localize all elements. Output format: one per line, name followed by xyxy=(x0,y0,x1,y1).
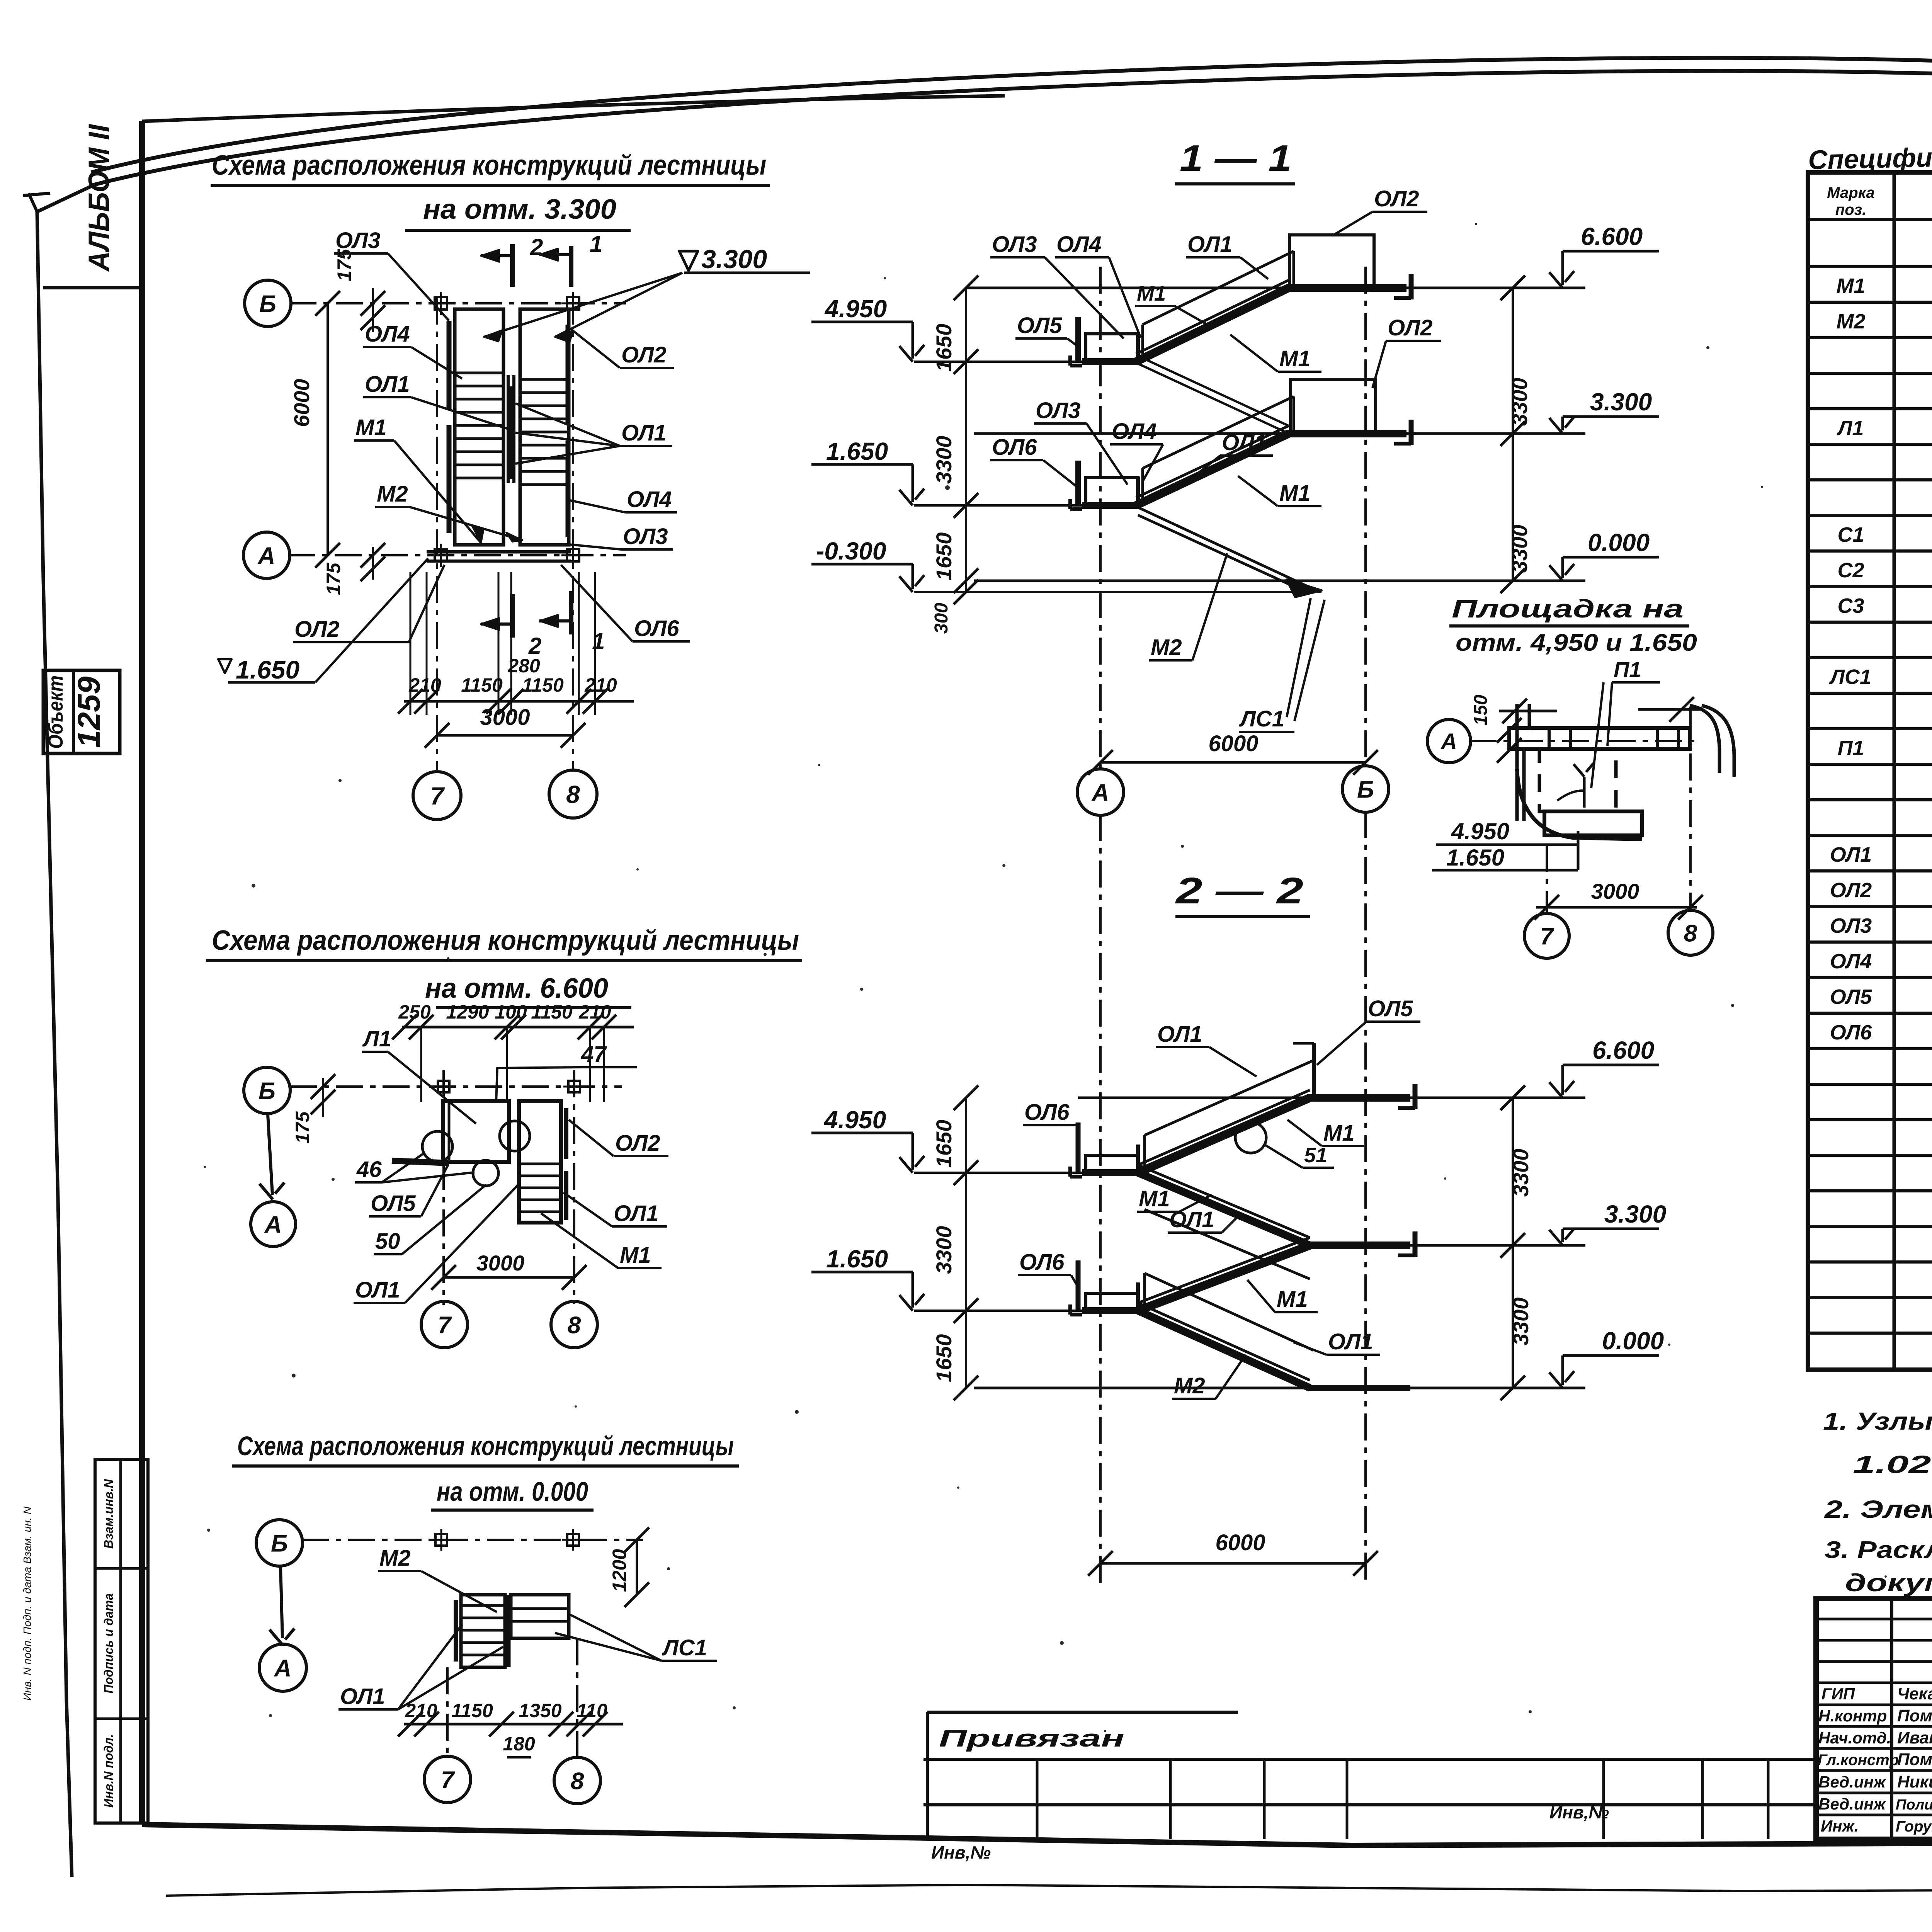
railing post ОЛ6 upper section 2-2 xyxy=(1076,1122,1081,1173)
upper flight М1 section 1-1 (4.950-6.600) xyxy=(1136,288,1289,362)
svg-text:ЛС1: ЛС1 xyxy=(662,1635,707,1660)
svg-text:ОЛ5: ОЛ5 xyxy=(1368,996,1413,1021)
svg-text:ОЛ3: ОЛ3 xyxy=(623,524,668,549)
svg-text:С3: С3 xyxy=(1837,594,1864,617)
axis circle Б scheme-2 xyxy=(244,1067,290,1114)
detail plan bottom slab xyxy=(1544,811,1642,835)
svg-text:А: А xyxy=(1440,729,1457,754)
left dim chain section 2-2 xyxy=(965,1098,967,1388)
section mark 2 top xyxy=(510,244,515,287)
scheme-1 right flight rectangle xyxy=(520,309,569,545)
left bottom rotated cells box xyxy=(95,1459,148,1823)
svg-text:ОЛ6: ОЛ6 xyxy=(634,616,679,641)
scheme-3 left flight steps xyxy=(461,1604,505,1607)
detail plan right curved corner xyxy=(1690,706,1719,773)
landing slab 3.300 section 2-2 xyxy=(1308,1242,1410,1249)
axis circle А detail xyxy=(1427,719,1471,763)
svg-text:П1: П1 xyxy=(1838,736,1864,760)
svg-text:3. Раскладку накладных проступ: 3. Раскладку накладных проступей см. 1.0… xyxy=(1825,1537,1932,1563)
svg-text:Нач.отд.: Нач.отд. xyxy=(1818,1729,1891,1747)
scheme-2 flight steps xyxy=(519,1163,561,1165)
svg-text:Н.контр: Н.контр xyxy=(1818,1707,1887,1725)
level line -0.300 section 1-1 xyxy=(914,591,1321,593)
scan specks xyxy=(945,485,950,490)
landing level 4.950 line section 2-2 xyxy=(914,1172,1085,1174)
svg-text:на отм. 3.300: на отм. 3.300 xyxy=(423,194,616,225)
svg-text:Инв.N подл.: Инв.N подл. xyxy=(102,1734,116,1808)
landing railing box ОЛ2 mid section 1-1 xyxy=(1291,379,1376,434)
axis А vertical section 1-1 xyxy=(1099,267,1102,768)
section 1-1 heading underline xyxy=(1175,182,1295,185)
scheme-1 bottom wall xyxy=(427,550,571,554)
svg-text:М2: М2 xyxy=(1174,1373,1205,1398)
svg-text:Взам.инв.N: Взам.инв.N xyxy=(102,1479,116,1549)
left inner thick border xyxy=(139,121,145,1825)
svg-text:3300: 3300 xyxy=(1509,1298,1533,1346)
axis Б to А arrow scheme-2 xyxy=(268,1114,272,1195)
flight М1 up section 2-2 (1.650-3.300) xyxy=(1138,1245,1310,1311)
scheme-1 title underline 1 xyxy=(211,184,770,187)
upper flight railing section 1-1 xyxy=(1143,251,1294,325)
svg-text:ОЛ4: ОЛ4 xyxy=(365,321,410,347)
svg-text:ЛС1: ЛС1 xyxy=(1239,706,1284,731)
svg-text:М1: М1 xyxy=(1323,1121,1355,1146)
svg-text:поз.: поз. xyxy=(1835,201,1866,218)
floor line 0.000 section 2-2 xyxy=(974,1387,1585,1389)
svg-text:А: А xyxy=(274,1655,292,1682)
axis line А detail xyxy=(1469,740,1700,742)
detail title underline xyxy=(1449,624,1689,628)
svg-text:Инв,№: Инв,№ xyxy=(1549,1802,1609,1822)
svg-text:250: 250 xyxy=(398,1001,431,1023)
svg-text:3.300: 3.300 xyxy=(1604,1200,1666,1228)
svg-text:Вед.инж: Вед.инж xyxy=(1818,1773,1886,1791)
axis line Б scheme-1 xyxy=(289,302,626,304)
axis line Б scheme-2 xyxy=(290,1085,622,1088)
svg-text:ОЛ3: ОЛ3 xyxy=(335,228,380,253)
svg-text:М2: М2 xyxy=(377,481,408,507)
svg-text:1.650: 1.650 xyxy=(1446,845,1504,871)
svg-text:1150: 1150 xyxy=(451,1700,493,1721)
svg-text:175: 175 xyxy=(323,562,344,595)
svg-text:Подпись и дата: Подпись и дата xyxy=(102,1593,116,1693)
bottom frame border xyxy=(142,1825,1932,1845)
scheme-2 dim 3000 xyxy=(444,1276,574,1279)
svg-text:Объект: Объект xyxy=(44,675,67,749)
scheme-2 column marks xyxy=(438,1081,449,1092)
detail plan top slab П1 xyxy=(1509,728,1690,749)
svg-text:Схема расположения конструкций: Схема расположения конструкций лестницы xyxy=(212,150,766,181)
scheme-1 left flight steps xyxy=(455,372,503,374)
axis circle 7 scheme-2 xyxy=(421,1301,468,1348)
axis circle Б section 1-1 xyxy=(1342,766,1389,812)
svg-text:ОЛ4: ОЛ4 xyxy=(627,487,672,512)
svg-text:ОЛ1: ОЛ1 xyxy=(1169,1207,1214,1232)
svg-text:3300: 3300 xyxy=(932,1226,956,1274)
detail level connector xyxy=(1577,831,1580,870)
svg-text:М1: М1 xyxy=(355,415,387,440)
svg-text:отм. 4,950 и 1.650: отм. 4,950 и 1.650 xyxy=(1456,629,1697,656)
hook 3.300 section 2-2 xyxy=(1413,1231,1418,1257)
flight М2 section 2-2 (1.650-0.000) xyxy=(1138,1311,1310,1388)
scheme-3 right flight rectangle xyxy=(511,1595,569,1638)
landing level 4.950 line section 1-1 xyxy=(914,361,1085,363)
steps ЛС1 section 1-1 xyxy=(1287,580,1321,597)
svg-text:ГИП: ГИП xyxy=(1821,1685,1855,1703)
svg-text:6000: 6000 xyxy=(1208,731,1258,756)
svg-text:8: 8 xyxy=(568,1312,581,1338)
svg-text:Инж.: Инж. xyxy=(1821,1817,1859,1835)
svg-text:3.300: 3.300 xyxy=(1590,388,1652,416)
svg-text:6000: 6000 xyxy=(289,379,314,427)
svg-text:ОЛ1: ОЛ1 xyxy=(1830,843,1872,866)
landing level 1.650 line section 2-2 xyxy=(914,1310,1085,1312)
hook 6.600 section 2-2 xyxy=(1413,1084,1418,1109)
svg-text:1150: 1150 xyxy=(461,674,503,696)
svg-text:Схема расположения конструкций: Схема расположения конструкций лестницы xyxy=(212,925,799,956)
section mark 1 bottom xyxy=(569,591,573,634)
svg-text:ОЛ1: ОЛ1 xyxy=(621,420,666,446)
landing railing box ОЛ2 top section 1-1 xyxy=(1289,235,1374,288)
svg-text:Инв. N подп. Подп. и дата: Инв. N подп. Подп. и дата Взам. ин. N xyxy=(21,1506,33,1701)
svg-text:ОЛ5: ОЛ5 xyxy=(1017,313,1062,338)
svg-text:ОЛ6: ОЛ6 xyxy=(992,435,1037,460)
svg-text:Б: Б xyxy=(271,1530,288,1557)
svg-text:180: 180 xyxy=(503,1733,535,1755)
svg-text:Поликратова: Поликратова xyxy=(1896,1797,1932,1813)
svg-text:1.650: 1.650 xyxy=(826,1245,888,1273)
axis circle Б scheme-3 xyxy=(256,1520,303,1566)
svg-text:М1: М1 xyxy=(1279,346,1311,371)
svg-text:1650: 1650 xyxy=(932,324,956,372)
svg-text:С1: С1 xyxy=(1837,523,1864,546)
svg-text:Инв,№: Инв,№ xyxy=(931,1842,991,1862)
elevation mark 1.650 plan xyxy=(218,659,231,673)
svg-text:М1: М1 xyxy=(1836,274,1865,298)
left border top hook xyxy=(37,186,91,212)
scheme-3 left flight rectangle xyxy=(461,1595,505,1667)
svg-text:210: 210 xyxy=(584,674,617,696)
left outer border xyxy=(37,212,72,1877)
svg-text:46: 46 xyxy=(356,1157,382,1182)
svg-text:ОЛ4: ОЛ4 xyxy=(1056,232,1101,257)
svg-text:Схема расположения конструкций: Схема расположения конструкций лестницы xyxy=(237,1431,734,1461)
scheme-2 railing ОЛ2 dashes xyxy=(564,1108,568,1159)
section mark 1 top xyxy=(569,246,573,287)
svg-text:1150: 1150 xyxy=(522,674,564,696)
svg-text:Л1: Л1 xyxy=(1836,417,1864,440)
scheme-2 right flight rectangle xyxy=(519,1101,561,1223)
scheme-3 title underline 1 xyxy=(232,1464,739,1468)
upper flight М1 section 2-2 (4.950-6.600) xyxy=(1138,1098,1310,1173)
svg-text:3000: 3000 xyxy=(476,1251,525,1275)
railing post ОЛ5 section 1-1 xyxy=(1075,317,1081,362)
floor line 0.000 section 1-1 xyxy=(974,580,1585,582)
svg-text:Помазов: Помазов xyxy=(1897,1706,1932,1725)
svg-text:3300: 3300 xyxy=(1507,378,1532,426)
svg-text:ОЛ3: ОЛ3 xyxy=(1830,914,1872,937)
svg-text:1650: 1650 xyxy=(932,532,956,581)
floor line 6.600 section 1-1 xyxy=(966,287,1585,289)
svg-text:50: 50 xyxy=(375,1229,400,1254)
right dim chain section 1-1 xyxy=(1512,288,1514,581)
detail plan bottom-left curved wall xyxy=(1517,769,1642,839)
svg-text:3.300: 3.300 xyxy=(701,245,767,274)
landing level 1.650 line section 1-1 xyxy=(914,504,1085,507)
section 2-2 heading underline xyxy=(1175,915,1310,918)
svg-text:А: А xyxy=(1091,779,1109,806)
svg-text:ОЛ5: ОЛ5 xyxy=(371,1191,416,1216)
svg-text:ОЛ6: ОЛ6 xyxy=(1019,1250,1065,1275)
floor line 3.300 section 2-2 xyxy=(1306,1244,1585,1247)
svg-text:документ 20ПЗ схемы 3 и 6.: документ 20ПЗ схемы 3 и 6. xyxy=(1845,1569,1932,1597)
svg-text:Помазов: Помазов xyxy=(1897,1750,1932,1769)
М2 railing section 2-2 xyxy=(1145,1273,1314,1350)
svg-text:7: 7 xyxy=(441,1767,455,1793)
railing post ОЛ6 lower section 2-2 xyxy=(1076,1260,1081,1311)
svg-text:П1: П1 xyxy=(1614,657,1641,682)
axis 8 vertical detail xyxy=(1689,707,1692,912)
axis 8 vertical scheme-3 xyxy=(576,1638,578,1758)
bottom thin fold line xyxy=(166,1885,1932,1896)
title block outer box xyxy=(1816,1599,1932,1839)
svg-text:1650: 1650 xyxy=(932,1334,956,1383)
title block signature row lines xyxy=(1816,1618,1932,1621)
svg-text:1.650: 1.650 xyxy=(236,655,299,684)
svg-text:Вед.инж: Вед.инж xyxy=(1818,1795,1886,1813)
mid flight railing section 1-1 xyxy=(1143,396,1294,468)
svg-text:300: 300 xyxy=(931,603,952,634)
inner frame top line xyxy=(142,96,1005,121)
svg-text:ОЛ4: ОЛ4 xyxy=(1112,419,1156,444)
scheme-1 central railing lines xyxy=(507,375,510,483)
svg-text:51: 51 xyxy=(1304,1144,1327,1167)
svg-text:1 — 1: 1 — 1 xyxy=(1180,138,1292,179)
floor line 3.300 section 1-1 xyxy=(974,432,1585,435)
svg-text:М1: М1 xyxy=(1137,282,1166,305)
svg-text:М1: М1 xyxy=(620,1243,651,1268)
axis circle 8 scheme-3 xyxy=(554,1757,600,1804)
svg-text:Горунженко: Горунженко xyxy=(1896,1818,1932,1835)
svg-text:ОЛ2: ОЛ2 xyxy=(615,1131,660,1156)
svg-text:4.950: 4.950 xyxy=(824,295,887,323)
scheme-1 right railing ОЛ2 dashes xyxy=(566,325,571,425)
svg-text:М1: М1 xyxy=(1279,481,1311,506)
АЛЬБОМ II panel divider xyxy=(43,286,142,289)
svg-text:-0.300: -0.300 xyxy=(816,537,886,565)
svg-text:Чекалов: Чекалов xyxy=(1897,1684,1932,1703)
flight М2 section 1-1 (1.650-0.000) xyxy=(1138,507,1313,589)
svg-text:Б: Б xyxy=(1357,776,1374,803)
svg-text:2 — 2: 2 — 2 xyxy=(1175,870,1303,912)
svg-text:7: 7 xyxy=(438,1312,452,1338)
scheme-2 title underline 2 xyxy=(436,1006,631,1009)
axis circle 8 scheme-2 xyxy=(551,1301,597,1348)
scheme-2 thick flight edge below landing xyxy=(392,1161,449,1163)
landing slab 3.300 section 1-1 xyxy=(1286,430,1406,437)
svg-text:7: 7 xyxy=(1540,923,1554,950)
svg-text:АЛЬБОМ II: АЛЬБОМ II xyxy=(83,124,116,272)
svg-text:Б: Б xyxy=(259,1078,276,1104)
svg-text:3300: 3300 xyxy=(1507,525,1532,573)
svg-text:М2: М2 xyxy=(1151,635,1182,660)
axis А vertical section 2-2 xyxy=(1099,814,1102,1584)
axis 8 vertical scheme-2 xyxy=(573,1070,575,1304)
scheme-2 landing plan rectangle xyxy=(443,1101,509,1162)
section 1-1 dim 6000 xyxy=(1100,761,1366,764)
scheme-3 right flight lines xyxy=(511,1607,569,1610)
scheme-2 handrail circles xyxy=(422,1131,452,1162)
svg-text:ОЛ6: ОЛ6 xyxy=(1830,1021,1872,1044)
scheme-1 dim 3000 xyxy=(437,734,573,737)
Объект 1259 box xyxy=(43,670,120,753)
svg-text:1: 1 xyxy=(590,231,602,257)
detail plan left wall xyxy=(1515,704,1519,821)
hook 3.300 section 1-1 xyxy=(1409,420,1414,445)
svg-text:1.020-1/83 вып. 6-1: 1.020-1/83 вып. 6-1 xyxy=(1853,1451,1932,1478)
axis 7 vertical scheme-2 xyxy=(442,1070,445,1305)
svg-text:Привязан: Привязан xyxy=(939,1725,1124,1752)
axis circle Б scheme-1 xyxy=(245,280,291,327)
scheme-1 left flight rectangle xyxy=(455,309,503,545)
left dim chain section 1-1 xyxy=(965,288,967,592)
landing 1.650 section 2-2 xyxy=(1086,1293,1138,1311)
hook 6.600 section 1-1 xyxy=(1409,274,1414,299)
svg-text:Б: Б xyxy=(259,291,276,317)
landing 4.950 section 2-2 xyxy=(1086,1155,1138,1173)
svg-text:Гл.констр: Гл.констр xyxy=(1818,1752,1899,1769)
scheme-3 title underline 2 xyxy=(431,1509,594,1512)
svg-text:210: 210 xyxy=(408,674,441,696)
svg-text:8: 8 xyxy=(571,1768,584,1794)
svg-text:ЛС1: ЛС1 xyxy=(1829,665,1871,689)
svg-text:47: 47 xyxy=(581,1042,607,1067)
svg-text:150: 150 xyxy=(1471,695,1491,726)
svg-text:ОЛ1: ОЛ1 xyxy=(1328,1329,1373,1354)
svg-text:ОЛ6: ОЛ6 xyxy=(1024,1100,1070,1125)
detail top ticks xyxy=(1499,710,1557,713)
upper landing slab 6.600 section 1-1 xyxy=(1286,284,1406,292)
axis 7 vertical scheme-1 xyxy=(436,298,438,771)
revision mini table xyxy=(927,1711,1238,1714)
svg-text:ОЛ4: ОЛ4 xyxy=(1830,950,1872,973)
svg-text:ОЛ3: ОЛ3 xyxy=(1036,398,1080,423)
scheme-3 railing dashes xyxy=(454,1600,458,1662)
svg-text:0.000: 0.000 xyxy=(1602,1327,1664,1355)
mid landing 1.650 section 1-1 xyxy=(1086,478,1138,505)
svg-text:ОЛ2: ОЛ2 xyxy=(621,342,666,367)
axis 8 vertical scheme-1 xyxy=(572,298,574,770)
detail plan slab end squares xyxy=(1549,728,1570,749)
section 2-2 dim 6000 xyxy=(1100,1562,1366,1565)
axis circle 8 detail xyxy=(1668,910,1713,955)
title block signature column lines xyxy=(1890,1599,1893,1839)
svg-text:А: А xyxy=(264,1211,282,1238)
axis circle А section 1-1 xyxy=(1077,769,1124,815)
thin flight 4.950-3.300 section 1-1 xyxy=(1138,364,1289,434)
railing post ОЛ5 section 2-2 xyxy=(1312,1043,1316,1098)
svg-text:8: 8 xyxy=(566,781,580,808)
scheme-1 left railing ОЛ3 dashes xyxy=(447,321,452,410)
svg-text:ОЛ2: ОЛ2 xyxy=(1374,186,1419,211)
axis circle 7 scheme-3 xyxy=(424,1756,471,1803)
sheet outer top border (double curved line) xyxy=(91,58,1932,172)
landing slab 0.000 section 2-2 xyxy=(1308,1385,1410,1391)
axis circle 7 scheme-1 xyxy=(413,772,461,820)
right dim chain section 2-2 xyxy=(1512,1098,1514,1388)
specification table grid xyxy=(1808,172,1932,1370)
flight М1 down section 2-2 (4.950-3.300) xyxy=(1138,1173,1310,1245)
axis circle А scheme-2 xyxy=(251,1202,296,1247)
svg-text:С2: С2 xyxy=(1837,559,1864,582)
svg-text:1.650: 1.650 xyxy=(826,437,888,465)
axis circle 8 scheme-1 xyxy=(549,770,597,818)
svg-text:1650: 1650 xyxy=(932,1120,956,1168)
mid railing lines section 2-2 xyxy=(1145,1209,1310,1279)
svg-text:1150: 1150 xyxy=(531,1001,573,1023)
scheme-1 bottom dim chain xyxy=(404,700,634,703)
mid flight М1 section 1-1 (1.650-3.300) xyxy=(1136,434,1289,505)
svg-text:Марка: Марка xyxy=(1827,184,1875,201)
svg-text:210: 210 xyxy=(578,1001,611,1023)
svg-text:ОЛ5: ОЛ5 xyxy=(1830,985,1872,1009)
svg-text:М2: М2 xyxy=(379,1546,411,1571)
railing post ОЛ6 section 1-1 xyxy=(1075,461,1081,505)
svg-text:6000: 6000 xyxy=(1215,1530,1265,1555)
svg-text:Площадка на: Площадка на xyxy=(1452,594,1684,623)
mid landing 4.950 section 1-1 xyxy=(1086,334,1138,362)
axis circle А scheme-3 xyxy=(259,1644,306,1691)
axis Б to А arrow scheme-3 xyxy=(281,1567,282,1638)
svg-text:1290: 1290 xyxy=(446,1001,489,1023)
svg-text:ОЛ3: ОЛ3 xyxy=(992,232,1037,257)
svg-text:ОЛ1: ОЛ1 xyxy=(1222,430,1267,455)
axis Б vertical section 2-2 xyxy=(1364,811,1367,1584)
axis 7 vertical scheme-3 xyxy=(446,1667,449,1757)
svg-text:на отм. 0.000: на отм. 0.000 xyxy=(437,1476,588,1507)
svg-text:А: А xyxy=(257,543,276,569)
scheme-1 right flight steps xyxy=(520,378,569,381)
elevation mark 3.300 plan xyxy=(679,251,698,270)
axis 7 vertical detail xyxy=(1546,845,1548,914)
scheme-2 title underline 1 xyxy=(206,959,802,962)
detail plan dashed inner box xyxy=(1539,749,1616,811)
floor line 6.600 section 2-2 xyxy=(1078,1097,1585,1099)
detail plan inner arrow xyxy=(1583,777,1586,808)
node circle 51 section 2-2 xyxy=(1235,1122,1266,1153)
svg-text:4.950: 4.950 xyxy=(823,1106,886,1134)
section mark 2 bottom xyxy=(510,594,515,638)
svg-text:М1: М1 xyxy=(1139,1186,1170,1211)
svg-text:ОЛ2: ОЛ2 xyxy=(1388,315,1432,340)
axis circle А scheme-1 xyxy=(243,532,290,578)
svg-text:ОЛ2: ОЛ2 xyxy=(1830,879,1872,902)
svg-text:6.600: 6.600 xyxy=(1581,223,1643,250)
svg-text:Иванов: Иванов xyxy=(1897,1728,1932,1747)
svg-text:7: 7 xyxy=(430,782,445,810)
leader lines from 3.300 mark xyxy=(484,273,682,337)
axis Б vertical section 1-1 xyxy=(1364,267,1367,766)
svg-text:3300: 3300 xyxy=(932,436,956,484)
svg-text:Никитина: Никитина xyxy=(1897,1772,1932,1791)
svg-text:6.600: 6.600 xyxy=(1592,1036,1654,1064)
svg-text:175: 175 xyxy=(292,1111,313,1144)
svg-text:ОЛ1: ОЛ1 xyxy=(614,1201,658,1226)
svg-text:3000: 3000 xyxy=(480,705,530,730)
svg-text:4.950: 4.950 xyxy=(1451,818,1509,844)
svg-text:1. Узлы замаркированные на дан: 1. Узлы замаркированные на данном листе,… xyxy=(1823,1407,1932,1435)
svg-text:2. Элементы каркаса см. КЖ-18: 2. Элементы каркаса см. КЖ-18 xyxy=(1824,1495,1932,1523)
